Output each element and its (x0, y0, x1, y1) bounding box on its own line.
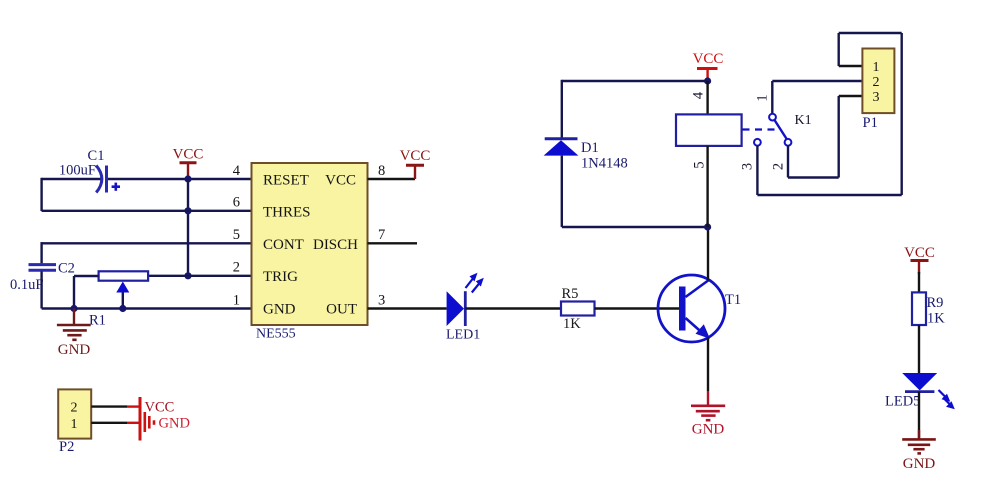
svg-text:NE555: NE555 (256, 327, 296, 342)
wire bottom loop (757, 194, 901, 196)
wire pin2 to P1 pin3 (788, 176, 839, 178)
svg-text:GND: GND (263, 302, 296, 318)
ground GND transistor (691, 391, 725, 420)
wire LED5 to GND (918, 392, 920, 439)
op IC NE555 U1 (252, 163, 368, 325)
wire C2 bottom vertical (40, 272, 42, 309)
svg-text:TRIG: TRIG (263, 269, 298, 285)
wire TRIG pin2 (148, 275, 252, 277)
svg-text:GND: GND (903, 456, 936, 472)
relay link dashed (743, 128, 778, 130)
wire collector up (707, 227, 709, 281)
wire emitter down (707, 338, 709, 392)
wire R5 to base (595, 307, 680, 309)
svg-text:0.1uF: 0.1uF (10, 277, 43, 293)
wire switch pin1 top (771, 81, 773, 114)
wire relay coil top (706, 81, 708, 114)
svg-text:100uF: 100uF (59, 163, 96, 179)
node junction R1-GND (70, 305, 77, 312)
svg-text:VCC: VCC (904, 245, 935, 261)
wire vertical bus x188 (187, 179, 189, 276)
svg-text:R9: R9 (927, 295, 944, 311)
svg-text:GND: GND (692, 422, 725, 438)
wire LED1 to R5 (465, 307, 561, 309)
wire D1 to collector node (562, 226, 708, 228)
LED LED5 (902, 373, 955, 409)
resistor R5 (561, 302, 595, 316)
svg-text:GND: GND (58, 342, 91, 358)
svg-text:VCC: VCC (173, 147, 204, 163)
resistor R9 (912, 292, 926, 325)
svg-text:T1: T1 (725, 292, 741, 308)
wire D1 vertical top (561, 80, 563, 139)
svg-text:1K: 1K (927, 311, 945, 327)
wire pin7 DISCH stub (368, 242, 418, 244)
svg-text:3: 3 (740, 163, 756, 170)
svg-text:2: 2 (873, 75, 880, 90)
capacitor C2 (29, 265, 57, 271)
LED LED1 (447, 273, 484, 326)
VCC symbol right (904, 245, 935, 274)
svg-text:2: 2 (233, 260, 240, 276)
VCC symbol top (693, 51, 724, 81)
svg-text:CONT: CONT (263, 237, 304, 253)
switch K1 contacts (754, 114, 791, 146)
wire right loop vertical (901, 33, 903, 195)
svg-text:C2: C2 (58, 261, 75, 277)
svg-text:R1: R1 (89, 313, 106, 329)
VCC symbol left (173, 147, 204, 180)
wire loop down to P1 pin1 (838, 33, 840, 66)
svg-text:8: 8 (378, 163, 385, 179)
svg-text:5: 5 (233, 227, 240, 243)
ground GND left (57, 309, 91, 340)
svg-text:LED5: LED5 (885, 394, 920, 410)
svg-text:1: 1 (233, 292, 240, 308)
svg-text:3: 3 (378, 292, 385, 308)
svg-text:VCC: VCC (325, 173, 356, 189)
node junction TRIG (184, 272, 191, 279)
wire CONT pin5 (42, 242, 252, 244)
VCC symbol P2 (140, 397, 174, 417)
svg-text:OUT: OUT (326, 302, 357, 318)
potentiometer R1 (74, 271, 148, 308)
svg-text:4: 4 (233, 163, 241, 179)
wire switch pin3 down (756, 146, 758, 195)
wire switch pin2 down (787, 146, 789, 178)
wire R9 to LED5 (918, 325, 920, 373)
svg-text:4: 4 (691, 91, 707, 99)
node junction collector (704, 223, 711, 230)
wire D1 vertical bottom (561, 156, 563, 227)
node junction VCC top (704, 77, 711, 84)
connector P2 (58, 389, 91, 438)
wire left vertical C1 to THRES (40, 178, 42, 211)
VCC symbol 555 right (400, 148, 431, 165)
wire VCC to R9 (918, 272, 920, 292)
wire top D1 to VCC (562, 80, 708, 82)
wire THRES pin6 (42, 210, 252, 212)
svg-text:RESET: RESET (263, 173, 309, 189)
svg-text:2: 2 (771, 163, 787, 170)
svg-text:7: 7 (378, 227, 385, 243)
wire OUT to LED1 (368, 307, 447, 309)
svg-text:1: 1 (873, 60, 880, 75)
svg-text:LED1: LED1 (446, 328, 480, 343)
connector P1 (862, 49, 894, 114)
svg-text:6: 6 (233, 195, 240, 211)
wire top loop (839, 32, 902, 34)
wire C1 net top (42, 178, 101, 180)
node junction wiper (119, 305, 126, 312)
svg-text:D1: D1 (581, 140, 599, 156)
wire pin8 to VCC (368, 178, 416, 180)
svg-text:1: 1 (71, 417, 78, 432)
svg-text:3: 3 (873, 90, 880, 105)
svg-text:VCC: VCC (693, 51, 724, 67)
wire GND net bottom (42, 307, 252, 309)
svg-text:DISCH: DISCH (313, 237, 358, 253)
ground GND P2 (140, 405, 190, 441)
svg-text:K1: K1 (795, 113, 812, 128)
transistor T1 (658, 275, 725, 342)
svg-text:P2: P2 (59, 439, 74, 455)
ground GND right (902, 430, 936, 453)
svg-text:5: 5 (692, 161, 708, 168)
svg-text:2: 2 (71, 400, 78, 415)
wire P2 pin2 (91, 405, 127, 407)
svg-text:1K: 1K (563, 316, 581, 332)
diode D1 1N4148 (544, 139, 579, 156)
node junction VCC/RESET (184, 175, 191, 182)
wire C1 to VCC junction (108, 178, 252, 180)
svg-text:THRES: THRES (263, 205, 311, 221)
svg-text:GND: GND (159, 416, 190, 432)
svg-text:1N4148: 1N4148 (581, 156, 628, 172)
node junction THRES (184, 207, 191, 214)
capacitor C1 (96, 166, 120, 193)
wire P2 pin1 (91, 422, 127, 424)
svg-text:1: 1 (755, 94, 771, 101)
svg-text:R5: R5 (562, 286, 579, 302)
wire relay coil bottom (706, 146, 708, 227)
svg-text:VCC: VCC (400, 148, 431, 164)
svg-text:VCC: VCC (145, 400, 175, 416)
wire CONT corner down to C2 (40, 242, 42, 263)
relay coil K1 (676, 114, 742, 145)
svg-text:P1: P1 (863, 115, 878, 131)
